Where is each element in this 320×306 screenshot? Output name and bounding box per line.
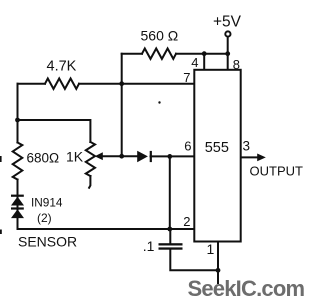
svg-text:555: 555 [205,140,229,156]
svg-text:8: 8 [233,57,240,72]
svg-text:6: 6 [184,139,191,154]
wire pin4 stub [203,54,205,70]
svg-text:7: 7 [183,70,190,85]
svg-text:1: 1 [207,241,215,257]
capacitor .1 bottom plate [159,247,183,249]
wire node to pin2 line [169,156,171,229]
wire top bus right segment [176,53,228,55]
svg-text:4.7K: 4.7K [47,59,77,75]
junction top bus / pin8 [225,51,230,56]
diode IN914 upper cathode bar [11,195,24,197]
junction pin2 line [167,227,172,232]
svg-text:SeekIC.com: SeekIC.com [188,276,305,301]
junction top bus / pin4 [202,51,207,56]
junction pin1 / cap return [216,268,221,273]
diode IN914 lower cathode bar [11,207,24,209]
diode IN914 upper triangle [11,197,24,206]
junction wiper line [119,154,124,159]
svg-text:4: 4 [191,55,198,70]
wire left rail upper [17,84,19,143]
wire 680 through sensor diodes to bottom rail [18,180,195,230]
+5V supply terminal [225,31,230,36]
resistor 680 ohm [13,143,23,180]
junction left rail / pot branch [15,118,20,123]
svg-text:1K: 1K [66,149,84,165]
wire +5V vertical [227,37,229,54]
output arrowhead [257,154,266,162]
wire pot branch [18,120,91,142]
svg-text:560 Ω: 560 Ω [141,28,179,44]
potentiometer wiper arrowhead [95,152,103,160]
wire pin7 left lead [18,83,46,85]
wire pot wiper [102,155,138,157]
left edge artifact upper [0,156,2,162]
svg-text:2: 2 [183,214,190,229]
svg-text:(2): (2) [37,211,52,225]
diode IN914 lower triangle [11,209,24,218]
svg-text:.1: .1 [143,238,155,254]
speck artifact [158,101,160,103]
svg-text:SENSOR: SENSOR [18,234,77,250]
svg-text:3: 3 [243,139,251,154]
junction diode cathode node [167,154,172,159]
wire pin3 output [241,156,259,158]
wire pot bottom lead [89,176,90,188]
resistor 560 ohm [142,49,176,59]
wire top bus left segment [122,53,142,55]
svg-text:+5V: +5V [213,14,242,31]
capacitor .1 top plate [159,243,183,245]
IC 555 timer body [194,70,240,242]
svg-text:IN914: IN914 [31,196,63,210]
diode D1 cathode bar [150,151,152,162]
left edge artifact lower [0,230,2,235]
svg-text:680Ω: 680Ω [27,151,60,166]
wire diode to pin6 [151,155,195,157]
wire pin8 stub [227,54,229,70]
wire vertical from 560 to wiper node [121,54,123,157]
wire pin2 node to capacitor [169,229,171,243]
junction 4.7K-560 node [119,81,124,86]
svg-text:OUTPUT: OUTPUT [250,164,304,179]
wire capacitor bottom [170,249,218,270]
potentiometer 1K body [86,142,95,176]
wire pin7 right lead [79,83,194,85]
wire pin1 stub [217,242,219,284]
resistor 4.7K [45,79,79,89]
diode D1 triangle [137,151,148,163]
